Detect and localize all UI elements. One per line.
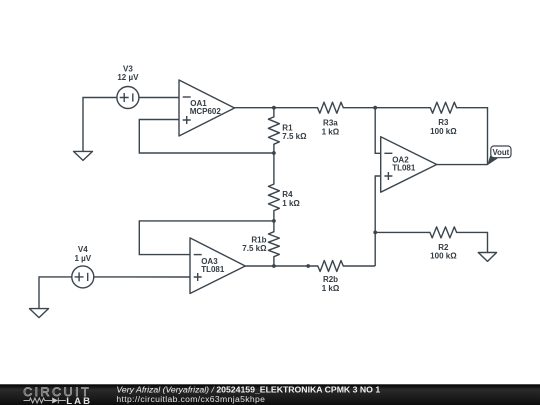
wire: [343, 107, 430, 109]
svg-text:MCP602: MCP602: [190, 107, 222, 116]
wire: [245, 265, 317, 267]
svg-text:R3a: R3a: [323, 119, 338, 128]
resistor R1b: [242, 221, 279, 266]
node: [272, 219, 276, 223]
svg-text:TL081: TL081: [392, 163, 416, 172]
resistor R3: [430, 102, 457, 136]
svg-text:R1b: R1b: [251, 235, 266, 244]
ground: [30, 309, 49, 318]
svg-text:LAB: LAB: [66, 396, 92, 405]
wire: [457, 108, 488, 165]
svg-text:7.5 kΩ: 7.5 kΩ: [282, 132, 307, 141]
wire: [83, 98, 117, 152]
svg-text:100 kΩ: 100 kΩ: [430, 127, 457, 136]
wire: [375, 176, 381, 266]
op-amp OA1 MCP602: [179, 80, 235, 136]
svg-text:Very Afrizal (Veryafrizal) / 2: Very Afrizal (Veryafrizal) / 20524159_EL…: [116, 385, 380, 395]
svg-text:R3: R3: [438, 118, 449, 127]
svg-text:R2b: R2b: [323, 275, 338, 284]
svg-text:1 kΩ: 1 kΩ: [322, 284, 340, 293]
svg-text:7.5 kΩ: 7.5 kΩ: [242, 244, 267, 253]
resistor R2: [430, 227, 457, 261]
svg-text:12 µV: 12 µV: [117, 73, 139, 82]
ground: [478, 253, 496, 262]
node: [272, 264, 276, 268]
svg-text:V4: V4: [78, 245, 88, 254]
wire: [139, 120, 274, 154]
wire: [94, 276, 190, 278]
wire: [139, 97, 179, 99]
voltage source V4: [72, 245, 94, 288]
wire: [375, 108, 381, 154]
bottom attribution bar: [0, 384, 540, 405]
resistor R4: [268, 153, 300, 221]
wire: [139, 221, 274, 255]
voltage source V3: [117, 64, 139, 108]
svg-text:R1: R1: [282, 123, 293, 132]
wire: [235, 107, 318, 109]
op-amp OA2 TL081: [381, 137, 437, 193]
node: [272, 151, 276, 155]
wire: [457, 232, 488, 252]
svg-text:V3: V3: [123, 64, 133, 73]
flag Vout: [487, 146, 511, 165]
svg-text:Vout: Vout: [493, 148, 510, 157]
wire: [39, 277, 72, 309]
svg-text:1 kΩ: 1 kΩ: [322, 127, 340, 136]
resistor R2b: [318, 261, 344, 294]
ground: [74, 151, 93, 160]
wire: [375, 231, 430, 233]
svg-text:1 µV: 1 µV: [74, 254, 91, 263]
node: [373, 106, 377, 110]
svg-text:R2: R2: [438, 243, 449, 252]
CircuitLab logo: [23, 385, 92, 405]
resistor R3a: [318, 102, 344, 136]
op-amp OA3 TL081: [190, 238, 245, 294]
wire: [343, 265, 375, 267]
svg-text:1 kΩ: 1 kΩ: [282, 199, 300, 208]
node: [272, 106, 276, 110]
svg-text:R4: R4: [282, 190, 293, 199]
resistor R1: [268, 108, 307, 153]
svg-text:TL081: TL081: [201, 265, 225, 274]
wire: [437, 164, 488, 166]
node: [306, 264, 310, 268]
node: [373, 231, 377, 235]
svg-text:100 kΩ: 100 kΩ: [430, 252, 457, 261]
svg-text:http://circuitlab.com/cx63mnja: http://circuitlab.com/cx63mnja5khpe: [116, 394, 265, 404]
